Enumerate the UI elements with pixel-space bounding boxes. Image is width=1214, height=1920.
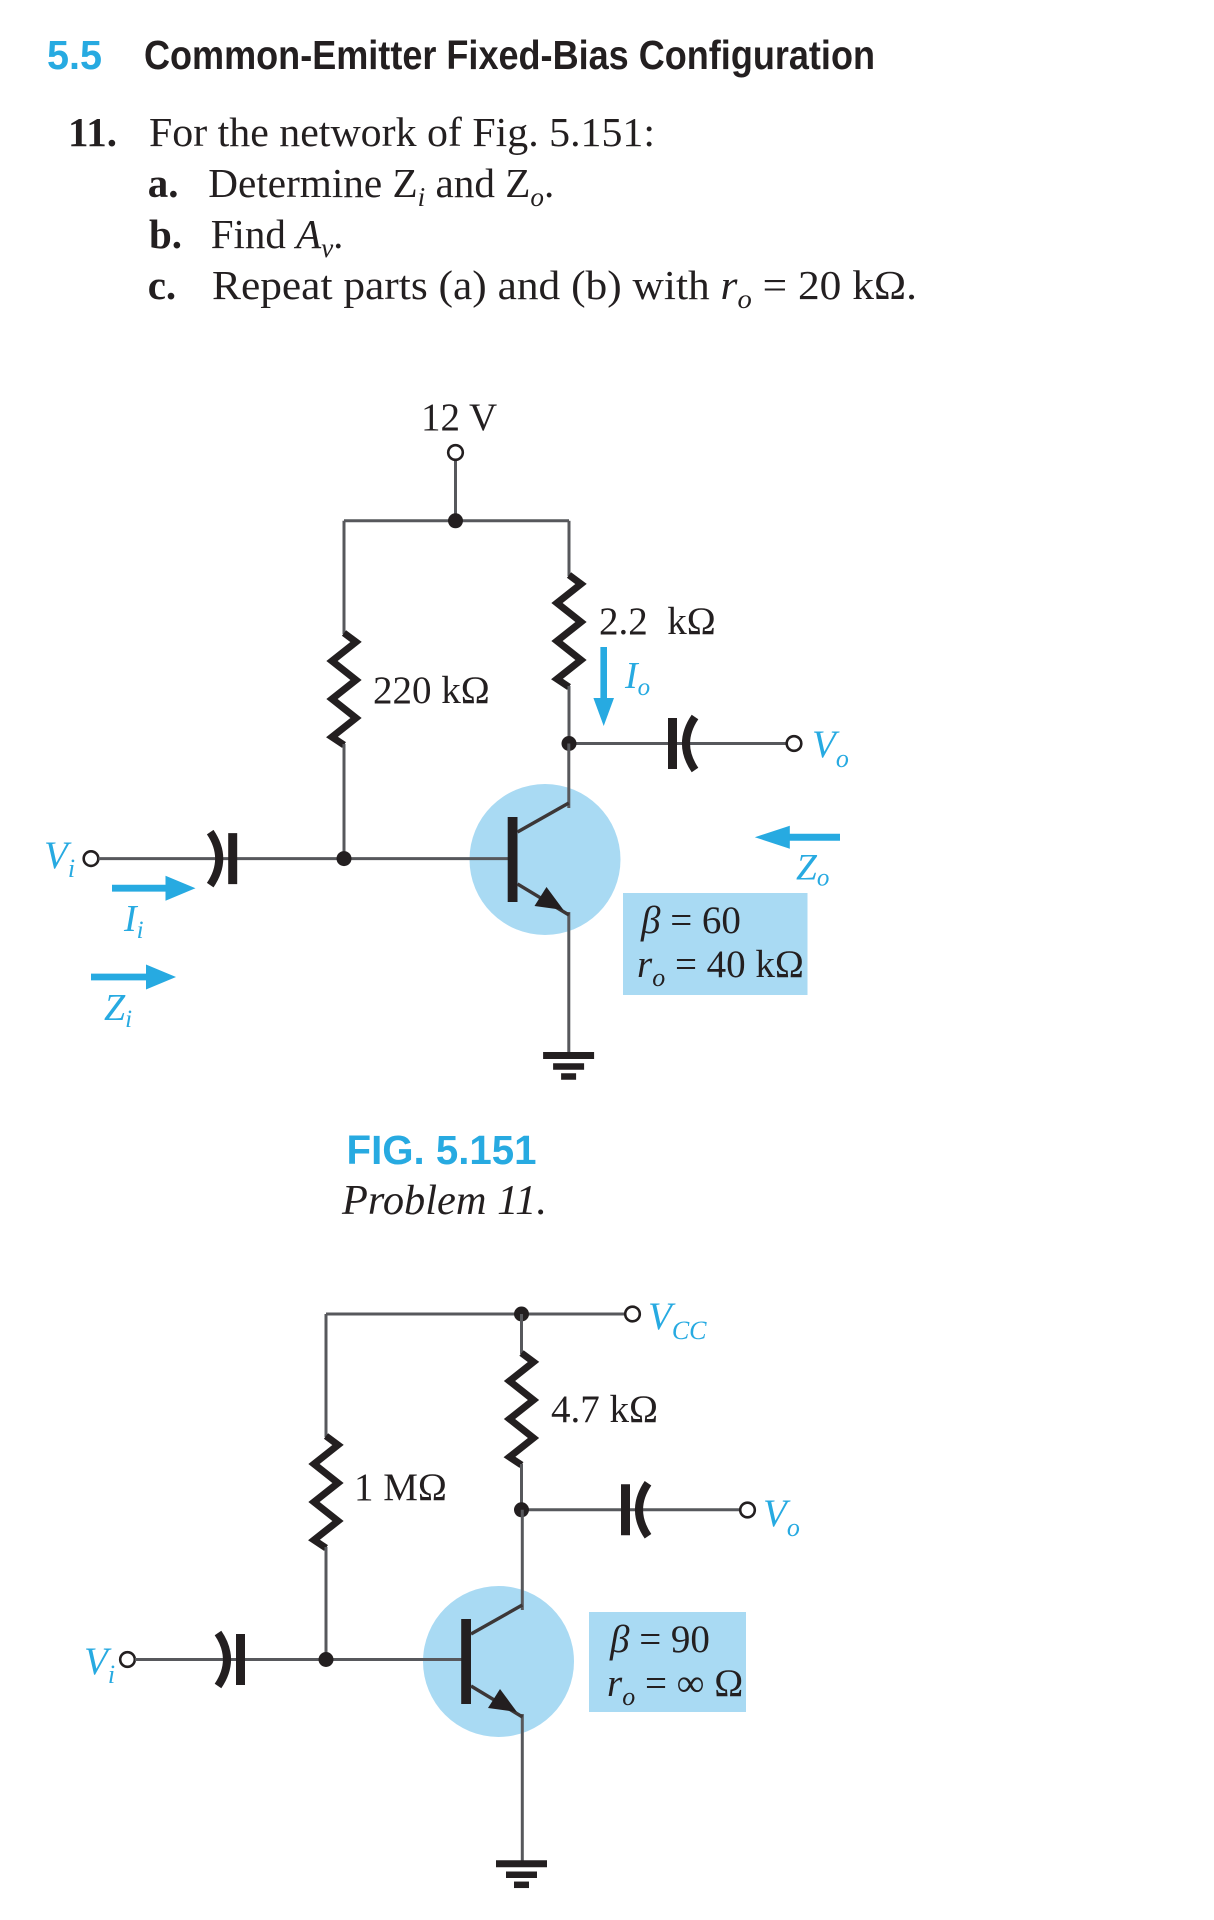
svg-text:Vi: Vi bbox=[44, 834, 75, 883]
svg-text:12 V: 12 V bbox=[421, 396, 497, 439]
svg-text:c.: c. bbox=[148, 262, 176, 308]
svg-text:Io: Io bbox=[624, 655, 650, 701]
svg-text:4.7 kΩ: 4.7 kΩ bbox=[551, 1388, 658, 1431]
svg-text:VCC: VCC bbox=[648, 1295, 707, 1345]
svg-text:Ii: Ii bbox=[123, 898, 144, 944]
svg-text:β = 90: β = 90 bbox=[609, 1618, 710, 1661]
svg-text:a.: a. bbox=[148, 160, 179, 206]
svg-text:Vi: Vi bbox=[84, 1640, 115, 1689]
svg-text:5.5: 5.5 bbox=[47, 32, 102, 78]
svg-text:FIG. 5.151: FIG. 5.151 bbox=[347, 1127, 537, 1173]
svg-text:Repeat parts (a) and (b) with: Repeat parts (a) and (b) with ro = 20 kΩ… bbox=[212, 262, 917, 314]
svg-text:β = 60: β = 60 bbox=[640, 899, 741, 942]
svg-text:Determine Zi and Zo.: Determine Zi and Zo. bbox=[208, 160, 554, 212]
svg-text:Zi: Zi bbox=[104, 987, 132, 1033]
svg-text:Zo: Zo bbox=[796, 848, 829, 892]
svg-text:2.2 kΩ: 2.2 kΩ bbox=[599, 600, 716, 643]
svg-text:Find Av.: Find Av. bbox=[211, 211, 344, 263]
svg-text:Vo: Vo bbox=[763, 1492, 800, 1542]
svg-text:For the network of Fig. 5.151:: For the network of Fig. 5.151: bbox=[149, 109, 655, 155]
svg-text:b.: b. bbox=[149, 211, 182, 257]
svg-text:1 MΩ: 1 MΩ bbox=[354, 1466, 447, 1509]
svg-text:220 kΩ: 220 kΩ bbox=[373, 669, 490, 712]
svg-text:Common-Emitter Fixed-Bias Conf: Common-Emitter Fixed-Bias Configuration bbox=[144, 32, 875, 78]
svg-text:Problem 11.: Problem 11. bbox=[341, 1178, 547, 1224]
svg-text:Vo: Vo bbox=[812, 723, 849, 773]
svg-text:11.: 11. bbox=[68, 109, 117, 155]
